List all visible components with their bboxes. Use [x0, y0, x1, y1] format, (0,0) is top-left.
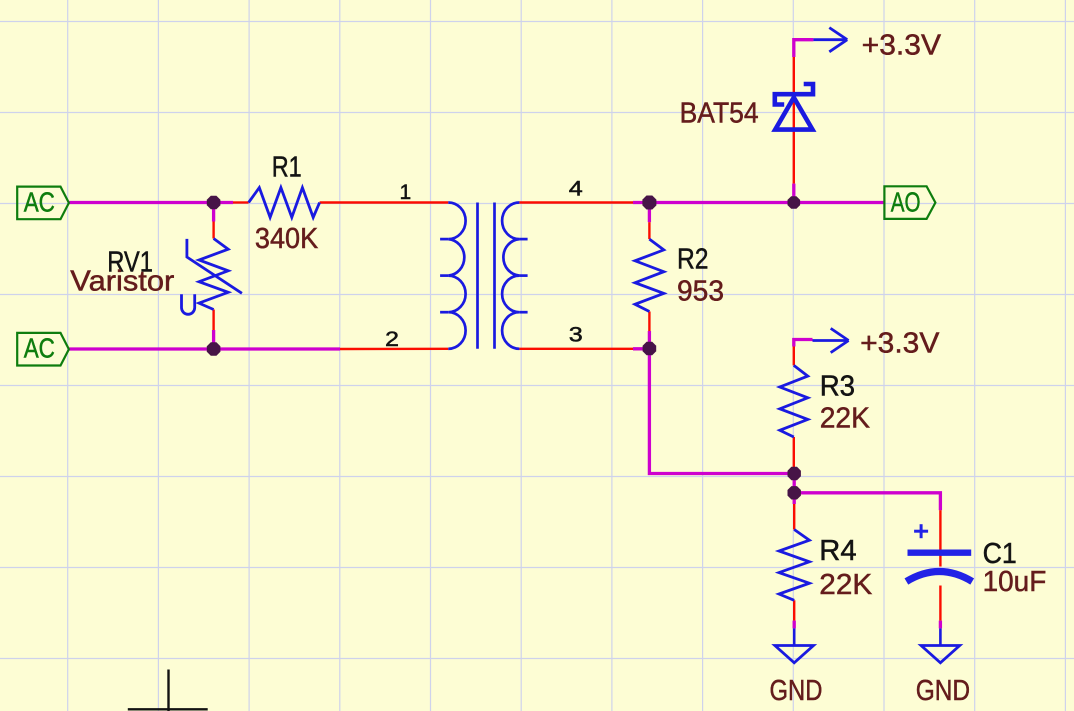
wire transformer pin 3 (red): [519, 348, 633, 350]
wire stub junction to R1 left (red): [233, 201, 249, 203]
svg-text:AC: AC: [24, 333, 55, 364]
diode D1 BAT54: [775, 84, 813, 130]
wire BAT54 anode (red): [793, 97, 795, 184]
wire R3 top (red): [793, 347, 795, 366]
resistor R2: [635, 239, 664, 311]
junction J6: [788, 467, 801, 480]
transformer T1: [440, 203, 527, 349]
wire R2 bottom stub (magenta): [648, 331, 651, 349]
svg-text:GND: GND: [770, 675, 823, 707]
wire pin3 to junction (magenta): [633, 347, 651, 350]
wire junction down and right to R3 node (magenta): [649, 349, 794, 474]
svg-text:AC: AC: [24, 186, 55, 217]
resistor R3: [780, 365, 808, 437]
partial symbol bottom left: [128, 670, 208, 711]
svg-text:R3: R3: [820, 370, 855, 402]
resistor R1: [249, 188, 320, 218]
svg-text:953: 953: [677, 275, 724, 307]
wire node A0 horizontal (magenta): [633, 201, 884, 204]
svg-text:+3.3V: +3.3V: [860, 327, 940, 359]
junction J3: [642, 196, 656, 210]
wire C1 gnd stub (magenta): [939, 621, 942, 629]
wire BAT54 anode stub (magenta): [792, 184, 795, 203]
wire R3 bottom stub (magenta): [793, 467, 796, 474]
wire node to C1 elbow (magenta): [794, 493, 940, 510]
svg-text:10uF: 10uF: [983, 566, 1047, 598]
capacitor C1: [906, 524, 972, 581]
svg-text:Varistor: Varistor: [70, 266, 174, 298]
wire R4 top (red): [793, 504, 795, 530]
resistor R4: [779, 530, 809, 601]
varistor RV1: [182, 239, 242, 315]
ground GND left: [775, 646, 814, 663]
svg-text:3: 3: [569, 324, 583, 347]
label AO: [884, 186, 935, 219]
svg-text:R4: R4: [819, 535, 856, 567]
pin R4 gnd (blue): [793, 628, 796, 645]
wire R3 bottom (red): [793, 437, 795, 467]
ground GND right: [921, 646, 960, 663]
junction J4: [643, 342, 657, 356]
wire C1 top (red): [939, 510, 941, 566]
svg-text:22K: 22K: [820, 403, 871, 435]
wire R2 top (red): [648, 222, 650, 239]
wire transformer pin 4 (red): [519, 201, 633, 203]
svg-text:+3.3V: +3.3V: [862, 29, 942, 61]
power +3.3V lower: [813, 328, 849, 352]
wire BAT54 power elbow (magenta): [794, 40, 814, 57]
wire R3 power elbow (magenta): [794, 340, 813, 347]
wire varistor bottom stub (magenta): [212, 330, 215, 349]
wire AC bottom (magenta): [69, 347, 340, 350]
svg-text:1: 1: [400, 181, 412, 204]
pin C1 gnd (blue): [939, 628, 942, 645]
wire R4 top stub (magenta): [793, 493, 796, 504]
wire R2 bottom (red): [648, 312, 650, 332]
junction J2: [207, 342, 221, 356]
svg-text:GND: GND: [916, 675, 970, 707]
label AC top: [17, 187, 69, 220]
wire varistor top stub (magenta over red): [212, 203, 215, 222]
wire AC top to R1 (magenta): [69, 201, 233, 204]
svg-text:340K: 340K: [255, 223, 319, 255]
wire R4 gnd stub (magenta): [793, 621, 796, 629]
wire to transformer pin 2 (red): [340, 348, 448, 351]
wire R1 right to transformer pin 1 (red): [320, 201, 449, 203]
svg-text:2: 2: [385, 328, 399, 351]
wire BAT54 cathode (red): [793, 57, 795, 93]
svg-text:22K: 22K: [819, 569, 873, 601]
wire between junctions (magenta): [793, 474, 796, 493]
junction J7: [788, 486, 801, 499]
wire R4 bottom (red): [793, 600, 795, 620]
svg-text:4: 4: [569, 178, 583, 201]
wire C1 bottom (red): [939, 586, 941, 621]
wire R2 top stub (magenta): [648, 203, 651, 223]
svg-text:R1: R1: [272, 151, 302, 183]
wire varistor top (red): [212, 222, 214, 239]
power +3.3V top: [813, 28, 847, 52]
junction J1: [207, 196, 221, 210]
wire varistor bottom (red): [212, 310, 214, 331]
svg-text:AO: AO: [891, 186, 921, 217]
label AC bottom: [17, 333, 69, 366]
junction J5: [788, 196, 801, 209]
svg-text:BAT54: BAT54: [680, 97, 759, 129]
svg-text:R2: R2: [677, 243, 709, 275]
